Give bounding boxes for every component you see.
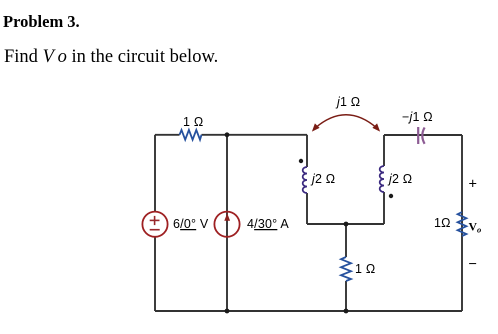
svg-text:1 Ω: 1 Ω [183,115,203,129]
svg-text:j1 Ω: j1 Ω [335,95,360,109]
svg-text:j2 Ω: j2 Ω [310,172,335,186]
svg-text:−j1 Ω: −j1 Ω [402,110,433,124]
svg-text:+: + [469,177,478,193]
svg-text:6/0° V: 6/0° V [173,217,209,231]
svg-text:j2 Ω: j2 Ω [387,172,412,186]
svg-text:4/30° A: 4/30° A [247,217,289,231]
svg-text:−: − [469,257,478,273]
svg-text:1Ω: 1Ω [434,216,451,230]
svg-text:1 Ω: 1 Ω [355,262,375,276]
svg-text:Vo: Vo [469,220,482,235]
